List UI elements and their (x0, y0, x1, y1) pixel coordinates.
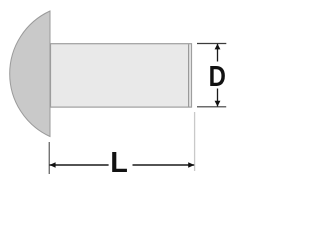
L arrow right (188, 162, 194, 168)
L dimension line left segment (50, 164, 109, 166)
D arrow down (215, 101, 221, 107)
L arrow left (50, 162, 56, 168)
rivet shank body (51, 44, 192, 107)
extension line left (under head) (48, 142, 50, 174)
L dimension line right segment (133, 164, 195, 166)
D arrow up (215, 44, 221, 50)
svg-text:D: D (209, 60, 226, 93)
D dimension line lower segment (217, 89, 219, 107)
D extension tick bottom (197, 106, 226, 108)
shank end inner edge (188, 44, 190, 107)
rivet round head (10, 11, 50, 137)
D extension tick top (197, 43, 226, 45)
svg-text:L: L (110, 147, 128, 179)
extension line right (light) (194, 112, 196, 171)
D dimension line upper segment (217, 44, 219, 62)
